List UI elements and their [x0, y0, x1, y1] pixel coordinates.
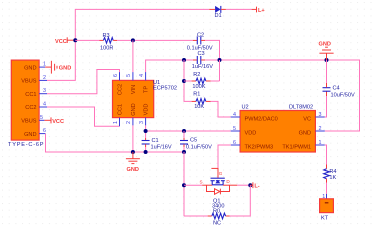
- pin 3 stub of U1: [139, 118, 146, 126]
- wire J1 pin6 to ground rail: [46, 134, 185, 152]
- svg-text:VBUS: VBUS: [21, 119, 37, 125]
- pin 1 stub of J1: [39, 62, 46, 68]
- svg-text:6: 6: [113, 74, 119, 77]
- svg-text:GND: GND: [24, 65, 36, 71]
- svg-text:KT: KT: [321, 216, 329, 222]
- svg-text:U2: U2: [242, 105, 249, 111]
- svg-text:GND: GND: [24, 132, 36, 138]
- pin 1 stub of U2: [315, 140, 324, 146]
- svg-text:GND: GND: [299, 130, 311, 136]
- wire Q1 drain to L- junction: [237, 184, 250, 186]
- node R2 left junction: [182, 79, 186, 83]
- svg-text:D1: D1: [215, 13, 222, 19]
- svg-text:C2: C2: [197, 33, 204, 39]
- svg-text:1uF/16V: 1uF/16V: [151, 145, 172, 151]
- svg-text:CC1: CC1: [118, 104, 124, 115]
- pin 6 stub of U1: [113, 72, 120, 80]
- svg-text:2: 2: [43, 75, 46, 81]
- wire U2 pin3 to C4: [325, 96, 327, 117]
- pin 2 stub of J1: [39, 75, 47, 81]
- pin 4 stub of J1: [39, 102, 47, 108]
- pin 6 stub of J1: [39, 128, 46, 134]
- net label VCC (J1 pin5): [44, 117, 64, 125]
- svg-text:0.1uF/50V: 0.1uF/50V: [186, 145, 212, 151]
- wire C5 bottom to Q1 source vertical: [183, 152, 185, 216]
- svg-text:VCC: VCC: [55, 39, 67, 45]
- net label L-: [250, 182, 260, 189]
- node ground rail C5 junction: [182, 150, 186, 154]
- resistor R0 NC: [208, 208, 230, 226]
- svg-text:GND: GND: [131, 103, 137, 115]
- connector K1 KT: [320, 194, 334, 222]
- svg-text:L-: L-: [254, 184, 259, 190]
- svg-text:PWM2/DAC0: PWM2/DAC0: [245, 116, 278, 122]
- resistor R1 10K: [192, 92, 211, 110]
- wire VIN drop to U1 pin5: [132, 40, 134, 72]
- svg-text:CC2: CC2: [118, 84, 124, 95]
- wire ladder right vertical C2 to R2: [219, 60, 221, 81]
- resistor R2 100K: [192, 72, 211, 90]
- wire R1 right down to U2 pin4: [211, 101, 231, 117]
- pin 1 stub of U1: [113, 118, 120, 127]
- op-amp U1 ECP5702: [113, 80, 177, 118]
- pin 5 stub of U1: [126, 72, 133, 80]
- pin 4 stub of U1: [139, 72, 146, 80]
- svg-text:G: G: [219, 171, 223, 176]
- ground GND (below U1): [126, 152, 140, 173]
- svg-text:VIN: VIN: [131, 85, 137, 94]
- capacitor C1 1uF/16V: [142, 138, 172, 152]
- wire D1 to L+: [226, 8, 252, 10]
- wire top rail VCC to D1 and down to VBUS pin2: [47, 9, 209, 80]
- diode D1: [209, 6, 226, 19]
- net label VCC (top): [55, 37, 75, 45]
- node ground rail U1 junction: [131, 150, 135, 154]
- node VDD C5 junction: [182, 129, 186, 133]
- svg-text:10uF/50V: 10uF/50V: [331, 93, 356, 99]
- svg-text:3: 3: [139, 121, 145, 124]
- svg-text:C1: C1: [152, 138, 159, 144]
- svg-text:CC2: CC2: [25, 105, 36, 111]
- svg-text:VC: VC: [303, 116, 311, 122]
- wire U1 pin3 VDD down and rail to U2 pin5: [146, 125, 231, 138]
- svg-text:GND: GND: [319, 41, 331, 47]
- svg-text:100K: 100K: [192, 84, 205, 90]
- svg-text:1: 1: [319, 140, 322, 146]
- svg-text:C3: C3: [198, 51, 205, 57]
- svg-text:DLT8M02: DLT8M02: [289, 105, 313, 111]
- wire C4 top to GND junction: [326, 60, 328, 83]
- svg-text:VDD: VDD: [144, 104, 150, 116]
- wire CC2 from J1 pin4 to U1 pin1: [47, 107, 120, 126]
- wire VCC junction to R3: [75, 39, 99, 41]
- wire R2 right to vertical corner: [211, 80, 220, 82]
- svg-text:NC: NC: [213, 221, 221, 227]
- node VIN junction: [131, 38, 135, 42]
- svg-text:CC1: CC1: [25, 92, 36, 98]
- node GND row left vertical junction: [182, 58, 186, 62]
- wire U1 pin2 to ground rail: [132, 125, 134, 152]
- svg-text:100R: 100R: [100, 46, 113, 52]
- connector J1 TYPE-C-6P: [8, 60, 44, 148]
- svg-text:R2: R2: [193, 72, 200, 78]
- svg-text:GND: GND: [59, 66, 71, 72]
- pin 5 stub of J1: [39, 115, 44, 121]
- node ground rail C1 junction: [144, 150, 148, 154]
- svg-text:5: 5: [233, 126, 236, 132]
- svg-text:GND: GND: [127, 167, 139, 173]
- wire ladder left vertical: [184, 60, 192, 101]
- pin 2 stub of U2: [315, 126, 324, 132]
- svg-text:1: 1: [113, 121, 119, 124]
- svg-text:5: 5: [126, 74, 132, 77]
- capacitor C2 0.1uF/50V: [187, 33, 213, 52]
- svg-text:1K: 1K: [329, 175, 336, 181]
- resistor R4 1K: [324, 165, 337, 183]
- svg-text:6: 6: [43, 128, 46, 134]
- svg-text:TP: TP: [144, 86, 150, 93]
- svg-text:5: 5: [40, 115, 43, 121]
- wire U2 pin1 down to R4: [325, 145, 327, 165]
- svg-text:1uF/16V: 1uF/16V: [192, 64, 213, 70]
- wire R2 left lead wire: [184, 80, 192, 82]
- svg-text:R0: R0: [213, 208, 220, 214]
- net label L+: [252, 7, 266, 14]
- pin 3 stub of J1: [39, 88, 47, 94]
- svg-text:TK1/PWM1: TK1/PWM1: [282, 144, 311, 150]
- svg-text:C5: C5: [190, 138, 197, 144]
- pin 6 stub of U2: [231, 140, 240, 146]
- svg-text:3: 3: [43, 88, 46, 94]
- svg-text:10K: 10K: [194, 104, 204, 110]
- svg-text:VCC: VCC: [52, 119, 64, 125]
- wire CC1 from J1 pin3 to U1 pin6: [47, 70, 120, 94]
- chip U2 DLT8M02: [240, 105, 315, 153]
- svg-text:C4: C4: [333, 86, 340, 92]
- node GND row right vertical junction: [218, 58, 222, 62]
- svg-text:R3: R3: [103, 33, 110, 39]
- pin 5 stub of U2: [231, 126, 240, 132]
- svg-text:VDD: VDD: [245, 130, 257, 136]
- pin 2 stub of U1: [126, 118, 133, 126]
- svg-text:S: S: [200, 180, 203, 185]
- svg-text:2: 2: [319, 126, 322, 132]
- node Q1 source junction: [182, 183, 186, 187]
- svg-text:4: 4: [43, 102, 46, 108]
- node VDD C1 junction: [144, 129, 148, 133]
- svg-text:2: 2: [126, 121, 132, 124]
- svg-text:4: 4: [233, 112, 236, 118]
- wire R0 left to source vertical: [184, 215, 208, 217]
- node GND symbol junction: [325, 58, 329, 62]
- wire GND row C3 to right corner at x359.5: [205, 60, 359, 131]
- capacitor C5 0.1uF/50V: [180, 138, 212, 153]
- wire drain junction down to R0: [230, 185, 251, 216]
- wire GND row y60 from TP corner to right: [146, 60, 193, 72]
- svg-text:TK2/PWM3: TK2/PWM3: [245, 144, 274, 150]
- wire R4 to K1: [326, 183, 328, 194]
- node drain junction: [248, 183, 252, 187]
- wire C2 to right vertical corner: [205, 40, 219, 60]
- svg-text:ECP5702: ECP5702: [153, 85, 177, 91]
- svg-text:VBUS: VBUS: [21, 79, 37, 85]
- wire source junction to Q1: [184, 184, 202, 186]
- pin 4 stub of U2: [231, 112, 240, 118]
- ground GND (top right): [319, 41, 334, 60]
- ground GND (J1 pin1, rotated): [45, 61, 71, 74]
- capacitor C3 1uF/16V: [192, 51, 213, 70]
- wire U2 pin6 to Q1 gate: [218, 145, 231, 168]
- wire C5 vertical from VDD rail down: [183, 131, 185, 138]
- svg-text:4: 4: [139, 74, 145, 77]
- pin 3 stub of U2: [315, 112, 324, 118]
- transistor Q1 3400: [200, 168, 238, 209]
- node VCC junction: [73, 38, 77, 42]
- wire R3 to C2 with VIN tap: [117, 39, 193, 41]
- svg-text:R1: R1: [193, 92, 200, 98]
- svg-text:TYPE-C-6P: TYPE-C-6P: [8, 142, 44, 148]
- svg-text:6: 6: [233, 140, 236, 146]
- svg-text:L+: L+: [258, 8, 265, 14]
- resistor R3 100R: [100, 33, 118, 52]
- capacitor C4 10uF/50V: [323, 83, 356, 99]
- svg-text:3: 3: [319, 112, 322, 118]
